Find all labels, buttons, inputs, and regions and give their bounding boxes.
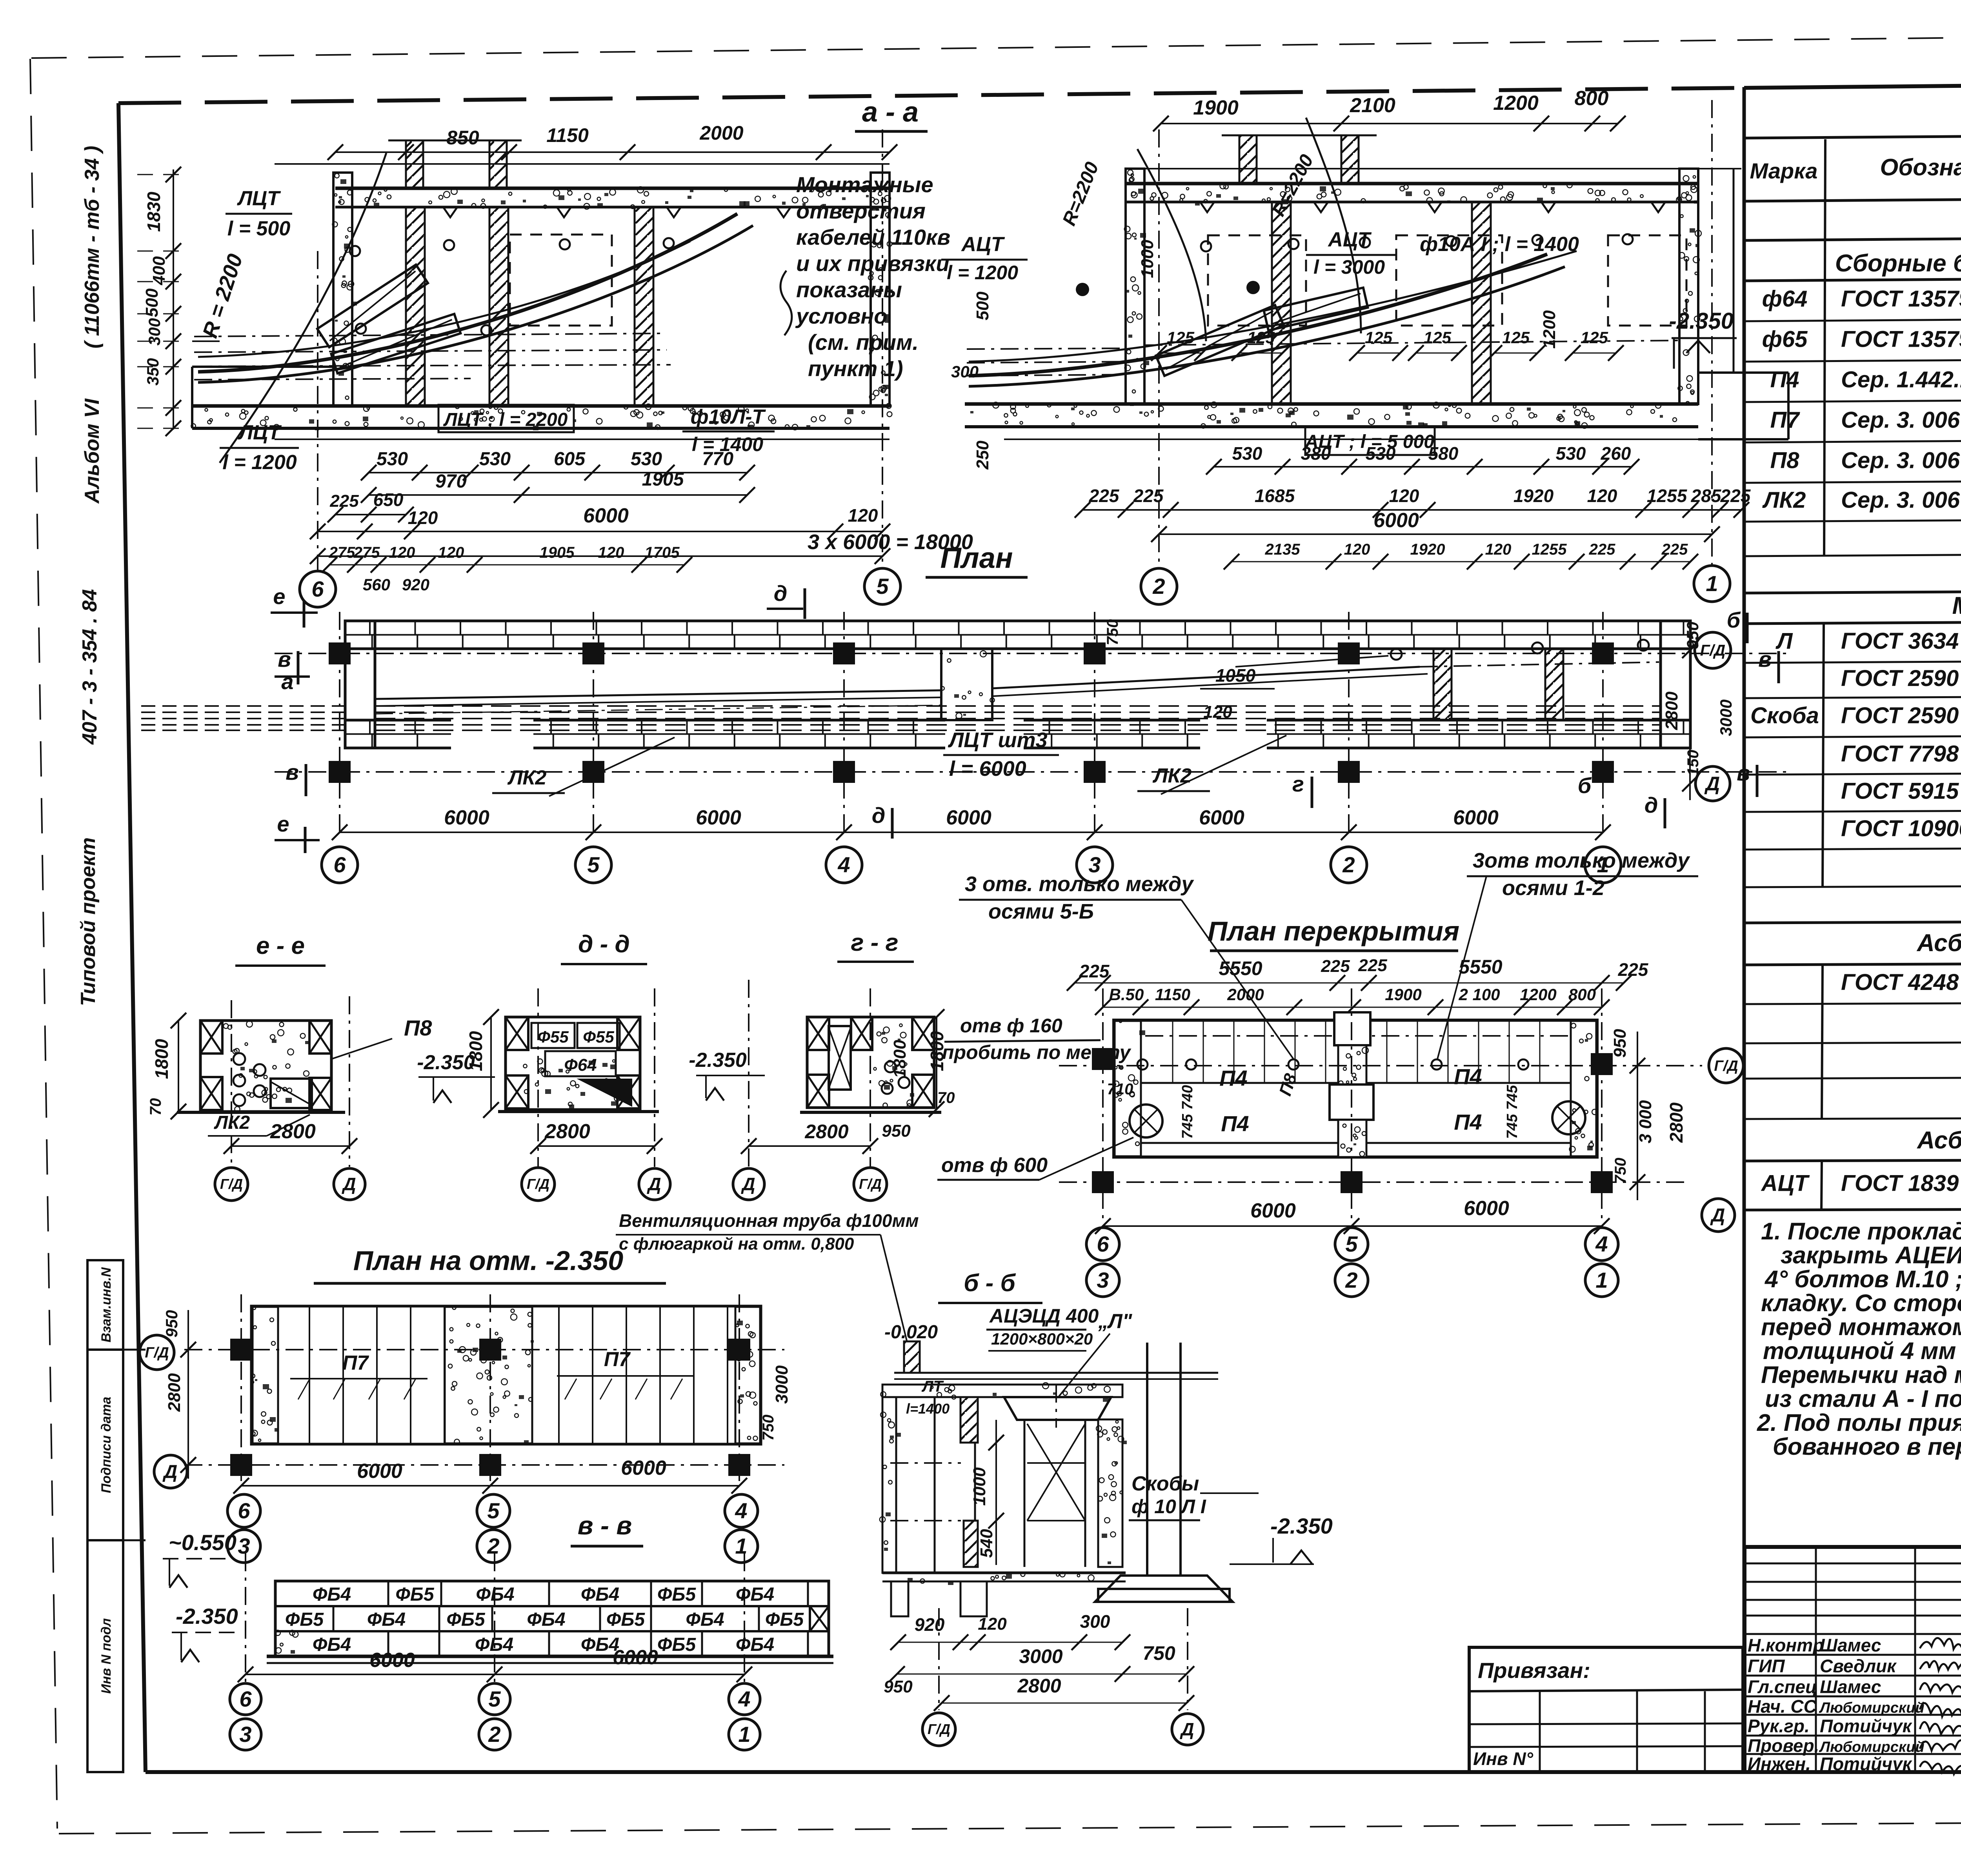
svg-text:2800: 2800 [804, 1121, 848, 1143]
svg-text:225: 225 [1358, 956, 1387, 975]
svg-text:1905: 1905 [540, 544, 575, 561]
spec table header [1750, 148, 1961, 189]
svg-text:l = 1200: l = 1200 [222, 451, 297, 474]
svg-text:6: 6 [311, 577, 324, 601]
svg-text:1800: 1800 [151, 1039, 172, 1079]
svg-text:950: 950 [1683, 622, 1702, 649]
svg-text:-2.350: -2.350 [1669, 308, 1734, 334]
svg-text:3000: 3000 [1717, 699, 1735, 736]
svg-text:6000: 6000 [946, 806, 991, 829]
svg-text:ГОСТ 13579-78: ГОСТ 13579-78 [1841, 286, 1961, 312]
svg-text:4: 4 [738, 1687, 750, 1711]
svg-text:Взам.инв.N: Взам.инв.N [99, 1267, 114, 1343]
svg-text:l = 1200: l = 1200 [947, 262, 1018, 284]
left inventory box [87, 1260, 146, 1772]
svg-text:2. Под полы приямков выпол: 2. Под полы приямков выполнить подготовк… [1757, 1409, 1961, 1436]
section v-v title [571, 1511, 643, 1546]
svg-text:Металлоконструкции: Металлоконструкции [1952, 592, 1961, 619]
svg-text:125: 125 [1424, 328, 1452, 347]
svg-text:950: 950 [162, 1310, 181, 1337]
svg-text:120: 120 [1587, 486, 1617, 506]
svg-text:ФБ5: ФБ5 [395, 1584, 434, 1605]
svg-text:6000: 6000 [369, 1649, 415, 1672]
svg-text:Д: Д [162, 1461, 178, 1482]
svg-text:2135: 2135 [1265, 541, 1301, 558]
svg-text:ФБ4: ФБ4 [367, 1609, 406, 1630]
svg-text:5550: 5550 [1459, 956, 1502, 978]
svg-text:350: 350 [144, 358, 162, 386]
svg-text:2 100: 2 100 [1458, 985, 1500, 1004]
svg-text:в - в: в - в [578, 1511, 632, 1540]
svg-text:6000: 6000 [1250, 1199, 1296, 1222]
svg-text:1705: 1705 [645, 544, 680, 561]
svg-text:ф10Л-Т: ф10Л-Т [691, 406, 766, 428]
svg-text:120: 120 [1485, 541, 1512, 558]
svg-text:1800: 1800 [890, 1040, 910, 1078]
plan title [926, 542, 1028, 577]
svg-text:П7: П7 [1770, 408, 1801, 433]
title block frame [1745, 1547, 1961, 1772]
privyazan box [1469, 1647, 1743, 1772]
svg-text:2000: 2000 [699, 122, 743, 144]
svg-text:225: 225 [329, 491, 359, 511]
svg-text:Д: Д [341, 1174, 356, 1194]
svg-text:970: 970 [435, 471, 467, 492]
svg-text:ЛК2: ЛК2 [1762, 488, 1806, 513]
svg-text:ГОСТ 3634 - 79: ГОСТ 3634 - 79 [1841, 628, 1961, 654]
svg-text:260: 260 [1601, 443, 1631, 464]
svg-text:3 000: 3 000 [1636, 1100, 1655, 1143]
svg-text:Шамес: Шамес [1820, 1635, 1881, 1656]
svg-text:П4: П4 [1221, 1111, 1249, 1136]
section a-a right axes [1141, 100, 1730, 604]
svg-text:2: 2 [487, 1534, 499, 1558]
svg-text:-2.350: -2.350 [176, 1604, 238, 1629]
svg-text:В.50: В.50 [1109, 985, 1144, 1004]
section d-d [417, 931, 670, 1201]
svg-text:отв ф 160: отв ф 160 [960, 1015, 1062, 1037]
svg-text:225: 225 [1079, 961, 1110, 981]
svg-text:285: 285 [1691, 486, 1722, 506]
svg-text:1050: 1050 [1215, 665, 1256, 686]
svg-text:6000: 6000 [696, 806, 741, 829]
svg-text:6000: 6000 [444, 806, 489, 829]
svg-text:Г/Д: Г/Д [527, 1176, 549, 1192]
svg-text:750: 750 [1142, 1642, 1175, 1664]
svg-text:1255: 1255 [1532, 541, 1567, 558]
svg-text:Инжен.: Инжен. [1748, 1754, 1811, 1774]
svg-text:г: г [1292, 772, 1304, 796]
svg-text:560: 560 [363, 575, 390, 594]
metal items rows [1750, 628, 1961, 841]
svg-text:120: 120 [848, 505, 878, 526]
svg-text:ФБ5: ФБ5 [657, 1584, 696, 1605]
svg-text:530: 530 [1366, 443, 1396, 464]
svg-text:ГОСТ 13579-78: ГОСТ 13579-78 [1841, 327, 1961, 352]
svg-text:225: 225 [1618, 959, 1649, 980]
svg-text:Сер. 3. 006 - 2: Сер. 3. 006 - 2 [1841, 488, 1961, 513]
svg-text:Привязан:: Привязан: [1478, 1658, 1590, 1683]
svg-text:План на отм. -2.350: План на отм. -2.350 [353, 1245, 624, 1276]
svg-text:1200×800×20: 1200×800×20 [991, 1330, 1093, 1348]
svg-text:275: 275 [353, 544, 380, 561]
svg-text:6000: 6000 [621, 1457, 666, 1479]
svg-text:АЦТ: АЦТ [960, 233, 1005, 256]
svg-text:осями 1-2: осями 1-2 [1502, 876, 1604, 900]
svg-text:ФБ4: ФБ4 [313, 1584, 351, 1605]
svg-text:Г/Д: Г/Д [1700, 642, 1726, 659]
svg-text:1000: 1000 [970, 1467, 989, 1506]
svg-text:ГОСТ 4248 - 78: ГОСТ 4248 - 78 [1841, 970, 1961, 995]
b-b dims left [906, 1378, 1004, 1565]
svg-text:1830: 1830 [144, 191, 164, 232]
svg-text:750: 750 [1104, 619, 1121, 646]
svg-text:120: 120 [598, 544, 624, 561]
svg-text:6: 6 [239, 1687, 252, 1711]
svg-text:920: 920 [915, 1614, 945, 1635]
svg-text:кабелей 110кв: кабелей 110кв [796, 225, 950, 249]
svg-text:120: 120 [389, 544, 415, 561]
svg-text:125: 125 [1502, 328, 1530, 347]
v-v block courses [267, 1581, 833, 1663]
svg-text:2800: 2800 [1662, 691, 1681, 730]
svg-text:l = 3000: l = 3000 [1313, 256, 1385, 278]
svg-text:750: 750 [1612, 1158, 1629, 1184]
svg-text:500: 500 [973, 291, 992, 320]
svg-text:770: 770 [702, 449, 733, 469]
plan labels [492, 728, 1286, 796]
svg-text:2: 2 [1342, 852, 1355, 877]
svg-text:б: б [1578, 773, 1592, 798]
section a-a axes [300, 129, 900, 607]
svg-text:1900: 1900 [1193, 96, 1239, 119]
section a-a title [855, 96, 928, 131]
svg-text:Подписи дата: Подписи дата [99, 1397, 114, 1493]
svg-text:1200: 1200 [1493, 92, 1539, 115]
plan perekrytiya title [1208, 916, 1459, 951]
svg-text:1150: 1150 [546, 124, 589, 146]
svg-text:120: 120 [1389, 486, 1419, 506]
section a-a left: bottom dims [310, 449, 973, 564]
svg-text:и их привязки: и их привязки [796, 251, 950, 276]
svg-text:П4: П4 [1454, 1064, 1482, 1089]
svg-text:6000: 6000 [613, 1646, 658, 1669]
svg-text:Сер. 1.442.1-1 Вып1, 2: Сер. 1.442.1-1 Вып1, 2 [1841, 367, 1961, 393]
svg-text:Вентиляционная труба ф100мм: Вентиляционная труба ф100мм [619, 1210, 919, 1231]
svg-text:745 745: 745 745 [1504, 1084, 1521, 1139]
svg-text:2: 2 [1345, 1268, 1357, 1292]
svg-text:6000: 6000 [1453, 806, 1499, 829]
svg-text:6000: 6000 [1373, 509, 1419, 532]
svg-text:е: е [277, 812, 289, 836]
svg-text:2100: 2100 [1350, 94, 1395, 117]
svg-text:Любомирский: Любомирский [1819, 1739, 1925, 1756]
svg-text:800: 800 [1568, 985, 1596, 1004]
svg-text:120: 120 [1344, 541, 1370, 558]
svg-text:710: 710 [1107, 1081, 1133, 1098]
svg-text:6000: 6000 [583, 504, 629, 527]
svg-text:125: 125 [1365, 328, 1393, 347]
svg-text:Нач. СС: Нач. СС [1748, 1696, 1817, 1717]
svg-text:650: 650 [373, 489, 404, 510]
svg-text:225: 225 [1589, 541, 1615, 558]
svg-text:3: 3 [1097, 1268, 1109, 1292]
svg-text:407 - 3 - 354 . 84: 407 - 3 - 354 . 84 [78, 589, 101, 745]
svg-text:950: 950 [882, 1121, 911, 1141]
svg-text:ЛЦТ: ЛЦТ [236, 187, 281, 210]
svg-text:2000: 2000 [1227, 985, 1264, 1004]
svg-text:ФБ5: ФБ5 [285, 1609, 324, 1630]
svg-text:б: б [1727, 608, 1741, 632]
plan -2.350 title [314, 1245, 666, 1283]
svg-text:Г/Д: Г/Д [1714, 1058, 1738, 1074]
svg-text:1200: 1200 [1540, 310, 1559, 349]
section b-b title [938, 1270, 1042, 1303]
svg-text:950: 950 [884, 1677, 913, 1696]
svg-text:6: 6 [238, 1498, 250, 1523]
svg-text:Сборные бетонные и железоб: Сборные бетонные и железобетонные издели… [1835, 250, 1961, 277]
svg-text:ФБ4: ФБ4 [686, 1609, 724, 1630]
section a-a right: cables [967, 118, 1686, 386]
svg-text:ФБ5: ФБ5 [446, 1609, 485, 1630]
svg-text:250: 250 [973, 440, 992, 470]
svg-text:2800: 2800 [270, 1120, 316, 1143]
svg-text:5: 5 [1345, 1232, 1358, 1256]
svg-text:отв ф 600: отв ф 600 [941, 1154, 1048, 1177]
svg-text:580: 580 [1428, 443, 1459, 464]
svg-text:ФБ5: ФБ5 [765, 1609, 804, 1630]
svg-text:4: 4 [735, 1498, 747, 1523]
svg-text:Скобы: Скобы [1131, 1472, 1199, 1495]
svg-text:Асбестоцементные трубы: Асбестоцементные трубы [1916, 1127, 1961, 1154]
svg-text:Обозначение: Обозначение [1880, 154, 1961, 180]
plan perekrytiya left labels [890, 1015, 1133, 1180]
svg-text:бованного в перемятый грун: бованного в перемятый грунт щебня толщин… [1773, 1433, 1961, 1460]
svg-text:380: 380 [1301, 443, 1331, 464]
svg-text:1905: 1905 [642, 469, 684, 490]
svg-text:в: в [278, 647, 291, 671]
svg-text:д: д [872, 803, 886, 828]
svg-text:530: 530 [631, 449, 662, 469]
svg-text:Д: Д [1179, 1719, 1194, 1740]
svg-text:в: в [1758, 647, 1772, 671]
svg-text:Шамес: Шамес [1820, 1677, 1881, 1697]
svg-text:70: 70 [147, 1098, 164, 1116]
svg-text:3 отв. только между: 3 отв. только между [965, 872, 1194, 896]
plan right dims rotated [1104, 619, 1735, 800]
svg-text:Д: Д [1710, 1205, 1725, 1226]
section a-a left: pit [192, 341, 335, 428]
svg-text:Провер.: Провер. [1748, 1736, 1819, 1756]
svg-text:275: 275 [329, 544, 355, 561]
svg-text:1920: 1920 [1513, 486, 1554, 506]
b-b dims bottom [884, 1611, 1194, 1711]
b-b elevation -2.350 [1230, 1514, 1333, 1564]
svg-text:300: 300 [145, 318, 164, 346]
svg-text:д: д [774, 581, 788, 606]
staff rows text [1748, 1635, 1961, 1775]
svg-text:П7: П7 [342, 1352, 369, 1374]
plan -2.350 slab [251, 1306, 761, 1445]
v-v bottom circles [230, 1683, 760, 1750]
svg-text:АЦТ: АЦТ [1761, 1171, 1810, 1196]
svg-text:120: 120 [438, 544, 464, 561]
svg-text:Скоба: Скоба [1750, 703, 1819, 728]
svg-text:3отв только между: 3отв только между [1473, 849, 1690, 872]
svg-text:530: 530 [1556, 443, 1586, 464]
section a-a right: bottom dims [1075, 443, 1751, 542]
plan bottom axis circles [322, 847, 1621, 883]
svg-text:ФБ4: ФБ4 [313, 1634, 351, 1655]
svg-text:5550: 5550 [1219, 957, 1262, 979]
svg-text:800: 800 [1575, 87, 1609, 110]
svg-text:l=1400: l=1400 [906, 1401, 950, 1417]
svg-text:ГОСТ 1839 - 80*: ГОСТ 1839 - 80* [1841, 1171, 1961, 1196]
svg-text:920: 920 [402, 575, 429, 594]
svg-text:2: 2 [488, 1722, 500, 1747]
sheet items rows [1841, 970, 1961, 1034]
svg-text:Сер. 3. 006 - 2: Сер. 3. 006 - 2 [1841, 408, 1961, 433]
svg-text:-0.020: -0.020 [884, 1322, 938, 1343]
svg-text:Д: Д [1704, 773, 1720, 795]
plan -2.350 bottom circles [227, 1494, 758, 1563]
svg-text:в: в [1737, 761, 1750, 785]
svg-text:П4: П4 [1770, 367, 1799, 393]
svg-text:ЛК2: ЛК2 [507, 766, 547, 789]
svg-text:ф64: ф64 [1762, 286, 1808, 312]
svg-text:отверстия: отверстия [796, 198, 926, 223]
svg-text:г - г: г - г [851, 929, 898, 956]
svg-text:Д: Д [740, 1174, 755, 1194]
svg-text:Сер. 3. 006 -2: Сер. 3. 006 -2 [1841, 448, 1961, 473]
svg-text:ЛТ: ЛТ [921, 1378, 944, 1395]
svg-text:План перекрытия: План перекрытия [1208, 916, 1459, 946]
svg-text:П8: П8 [404, 1015, 432, 1040]
svg-text:ЛЦТ: ЛЦТ [237, 421, 282, 444]
svg-text:750: 750 [760, 1415, 777, 1441]
svg-text:Ф55: Ф55 [583, 1028, 614, 1046]
section e-e [147, 932, 432, 1201]
section a-a left: bottom slab [191, 404, 892, 439]
plan 6000 dims [332, 806, 1611, 840]
section a-a left: top dims [327, 122, 897, 160]
plan interior marks [1200, 640, 1649, 722]
svg-text:с флюгаркой на отм. 0,800: с флюгаркой на отм. 0,800 [619, 1234, 854, 1254]
svg-text:1: 1 [738, 1722, 750, 1747]
plan -2.350 axes [140, 1294, 791, 1494]
svg-text:ФБ5: ФБ5 [606, 1609, 645, 1630]
svg-text:перед монтажом оклеить асб: перед монтажом оклеить асбестовым картон… [1761, 1314, 1961, 1340]
b-b section body [880, 1341, 1233, 1616]
svg-text:( 11066тм - тб - 34 ): ( 11066тм - тб - 34 ) [81, 146, 104, 349]
svg-text:Гл.спец: Гл.спец [1748, 1677, 1817, 1697]
svg-text:400: 400 [149, 256, 169, 286]
svg-text:5: 5 [488, 1687, 501, 1711]
section a-a right: labels [941, 151, 1579, 470]
svg-text:ФБ4: ФБ4 [736, 1584, 774, 1605]
svg-text:Л: Л [1775, 628, 1793, 654]
svg-text:ГОСТ 10906 - 78: ГОСТ 10906 - 78 [1841, 816, 1961, 841]
section a-a right: walls [1124, 135, 1701, 406]
svg-text:Г/Д: Г/Д [928, 1721, 950, 1737]
svg-text:ГОСТ 2590 - 71 *: ГОСТ 2590 - 71 * [1841, 703, 1961, 728]
svg-text:3: 3 [239, 1722, 251, 1747]
svg-text:5: 5 [487, 1498, 500, 1523]
svg-text:ЛЦТ шт3: ЛЦТ шт3 [948, 728, 1048, 752]
svg-text:П8: П8 [1770, 448, 1800, 473]
plan perekrytiya bottom circles [1086, 1228, 1618, 1297]
svg-text:2800: 2800 [544, 1120, 590, 1143]
svg-text:530: 530 [1232, 443, 1262, 464]
svg-text:Марка: Марка [1750, 158, 1818, 183]
svg-text:ГОСТ 5915 - 70 *: ГОСТ 5915 - 70 * [1841, 779, 1961, 804]
svg-text:605: 605 [554, 449, 586, 469]
svg-text:ФБ4: ФБ4 [736, 1634, 774, 1655]
b-b labels top [884, 1305, 1133, 1396]
svg-text:225: 225 [1321, 957, 1350, 976]
svg-text:ф65: ф65 [1762, 327, 1808, 352]
notes text [1757, 1218, 1961, 1460]
plan axis lines + squares [275, 612, 1788, 832]
svg-text:Потийчук: Потийчук [1820, 1754, 1913, 1774]
section a-a right: ground + slabs [965, 169, 1741, 439]
svg-text:ЛЦТ ; l = 2200: ЛЦТ ; l = 2200 [443, 409, 568, 430]
svg-text:а: а [281, 669, 293, 694]
plan section marks left [271, 584, 320, 853]
section a-a left: cable runs [194, 153, 753, 463]
plan walls [345, 621, 1690, 750]
svg-text:б - б: б - б [964, 1270, 1016, 1297]
svg-text:а - а: а - а [862, 96, 919, 128]
svg-text:1: 1 [735, 1534, 747, 1558]
svg-text:1200: 1200 [1520, 985, 1556, 1004]
plan perekrytiya axes [1059, 988, 1743, 1234]
svg-text:l = 500: l = 500 [227, 217, 291, 240]
svg-text:530: 530 [377, 449, 408, 469]
svg-text:850: 850 [446, 127, 479, 149]
svg-text:120: 120 [978, 1614, 1007, 1634]
svg-text:Инв N подл: Инв N подл [99, 1618, 114, 1694]
svg-text:Монтажные: Монтажные [796, 172, 933, 197]
svg-text:ФБ4: ФБ4 [581, 1584, 619, 1605]
section a-a left: top slab [335, 187, 891, 217]
svg-text:150: 150 [1684, 750, 1702, 776]
plan perekrytiya slab [1107, 1012, 1597, 1157]
svg-text:Д: Д [646, 1174, 661, 1194]
svg-text:125: 125 [1167, 328, 1195, 347]
svg-text:Альбом VI: Альбом VI [81, 398, 104, 504]
svg-text:540: 540 [977, 1529, 996, 1558]
svg-text:225: 225 [1720, 486, 1751, 506]
svg-text:1000: 1000 [1138, 240, 1157, 278]
section g-g [689, 929, 947, 1201]
svg-text:6000: 6000 [357, 1460, 402, 1483]
svg-text:закрыть АЦЕИД'ными досками: закрыть АЦЕИД'ными досками 120×80× 2.0 п… [1781, 1242, 1961, 1268]
svg-text:П4: П4 [1219, 1066, 1247, 1090]
svg-text:План: План [940, 542, 1013, 574]
svg-text:70: 70 [937, 1089, 955, 1106]
svg-text:толщиной 4 мм по всей пло: толщиной 4 мм по всей площади доски. [1763, 1337, 1961, 1364]
vent pipe note [616, 1210, 919, 1341]
svg-text:1: 1 [1595, 1268, 1608, 1292]
svg-text:Г/Д: Г/Д [145, 1345, 169, 1361]
svg-text:4° болтов М.10 ; l = 100 мм,: 4° болтов М.10 ; l = 100 мм, заделанных … [1764, 1266, 1961, 1292]
svg-text:2800: 2800 [1666, 1102, 1686, 1143]
svg-text:125: 125 [1247, 328, 1275, 347]
svg-text:1900: 1900 [1385, 985, 1421, 1004]
svg-text:Сведлик: Сведлик [1820, 1656, 1897, 1676]
svg-text:Асбестоцементные листы: Асбестоцементные листы [1916, 930, 1961, 957]
